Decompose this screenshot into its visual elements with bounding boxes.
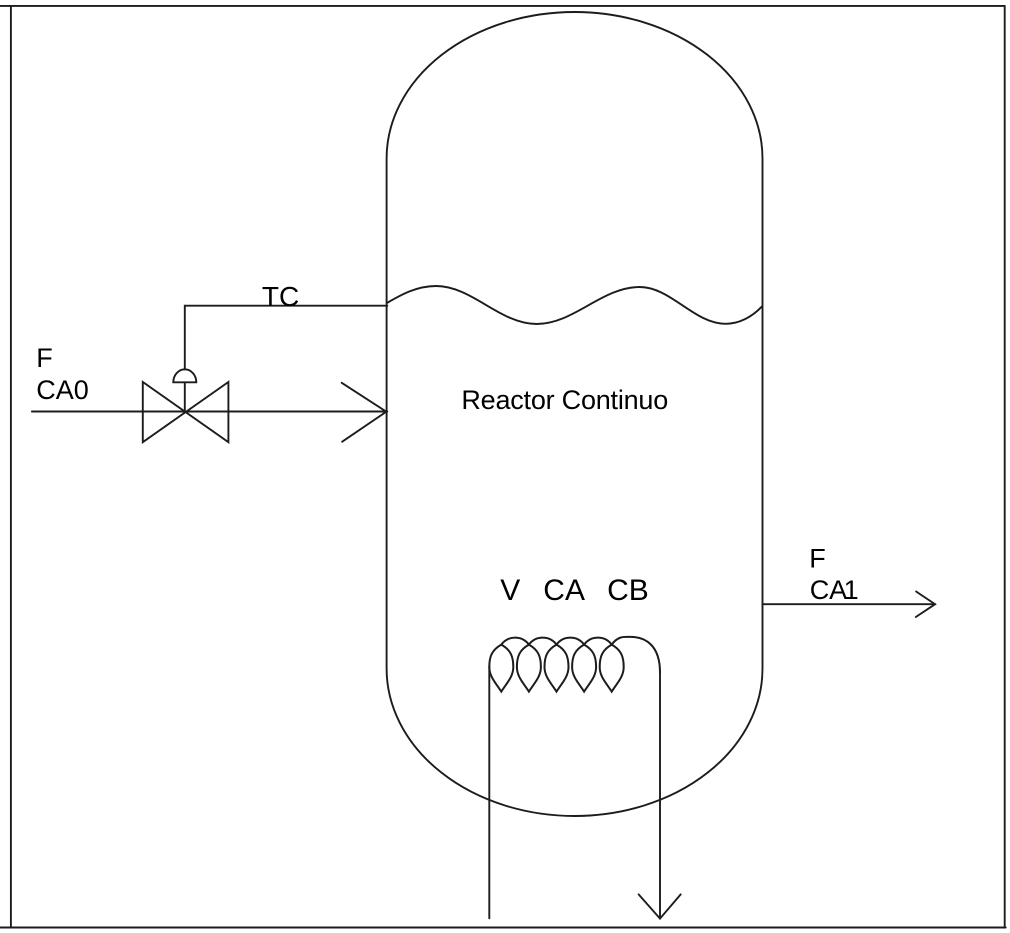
svg-text:CA0: CA0 bbox=[36, 375, 89, 405]
svg-text:V: V bbox=[500, 574, 520, 607]
svg-text:F: F bbox=[36, 343, 53, 373]
svg-text:Reactor Continuo: Reactor Continuo bbox=[461, 385, 668, 415]
svg-text:CA: CA bbox=[543, 574, 585, 607]
svg-text:1: 1 bbox=[844, 575, 859, 605]
svg-text:TC: TC bbox=[262, 281, 299, 312]
svg-text:CA: CA bbox=[810, 575, 848, 605]
svg-text:F: F bbox=[809, 544, 826, 574]
svg-text:CB: CB bbox=[607, 574, 649, 607]
